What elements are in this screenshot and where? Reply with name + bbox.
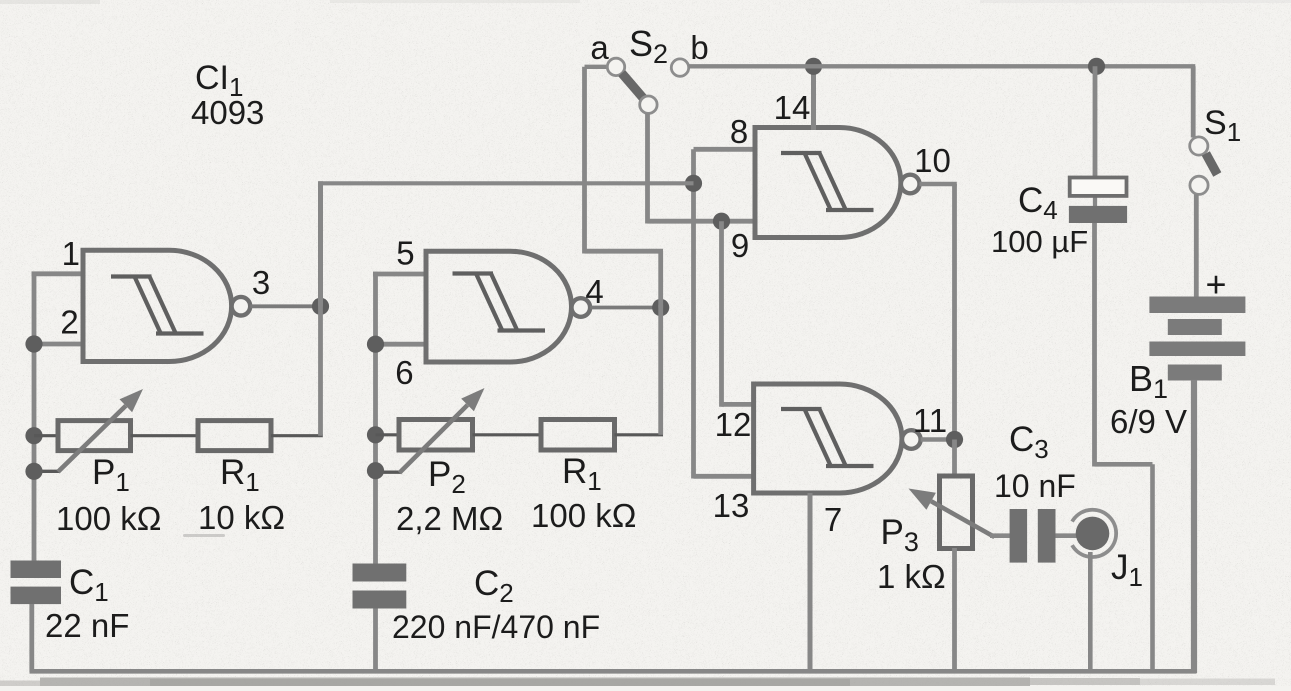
switch S1 top contact <box>1190 137 1208 155</box>
svg-text:10 kΩ: 10 kΩ <box>198 499 285 536</box>
wire C3 to J1 <box>1056 533 1079 538</box>
wire C4 top lead <box>1093 66 1098 177</box>
node pin2 junction <box>25 335 42 352</box>
label C1 <box>69 563 109 607</box>
wire pin9 input <box>648 219 756 224</box>
node P2 wiper junction <box>367 462 384 479</box>
schmitt symbol U1c <box>781 153 874 211</box>
capacitor C3 <box>1010 509 1056 563</box>
NAND gate U1c <box>755 128 920 238</box>
capacitor C4 negative plate <box>1069 206 1127 223</box>
battery B1 plate 1 <box>1149 297 1245 314</box>
wire P2-R1b <box>473 433 542 436</box>
node pin8 junction <box>685 175 702 192</box>
wire pin7 ground <box>808 493 813 672</box>
wire S2a horizontal <box>585 249 664 254</box>
wire pin8 vertical <box>691 149 696 478</box>
label P3 <box>881 513 919 557</box>
wire P1 left lead <box>34 434 58 437</box>
wire wiper to C3 <box>990 533 1011 538</box>
svg-text:4: 4 <box>585 273 603 310</box>
label 100 k&#937; (R1b) <box>531 497 636 534</box>
label battery plus <box>1205 264 1226 305</box>
wire top rail <box>689 64 1196 68</box>
node pin9 junction <box>713 213 730 230</box>
wire S2a to pin4 junction <box>658 251 663 307</box>
wire pin11 to P3 <box>952 440 957 477</box>
wire pin3 output <box>250 304 322 308</box>
schmitt symbol U1d <box>781 409 874 467</box>
wire ground rail <box>30 669 1197 674</box>
wire C4 bottom lead <box>1092 223 1097 467</box>
svg-text:5: 5 <box>396 235 414 272</box>
wire J1 to ground <box>1088 552 1093 672</box>
label P2 <box>428 455 466 499</box>
svg-text:4093: 4093 <box>191 94 264 131</box>
wire pin1 input <box>32 271 84 276</box>
schmitt symbol U1a <box>111 277 204 335</box>
pin label 4 <box>585 273 603 310</box>
capacitor C1 <box>11 561 62 605</box>
label C4 <box>1018 181 1058 225</box>
svg-text:10: 10 <box>914 142 951 179</box>
node C4 junction <box>1088 58 1105 75</box>
jack J1 pin <box>1076 517 1110 551</box>
svg-text:8: 8 <box>730 113 748 150</box>
svg-text:a: a <box>590 29 609 66</box>
node pin3 junction <box>312 298 329 315</box>
label 1 k&#937; <box>877 558 946 595</box>
pin label 7 <box>824 501 842 538</box>
pin label 8 <box>730 113 748 150</box>
pin label 11 <box>913 402 947 439</box>
wire C4 jog <box>1095 462 1153 467</box>
svg-text:100 kΩ: 100 kΩ <box>56 500 161 537</box>
wire pin8 input <box>694 147 756 152</box>
label P1 <box>92 453 130 497</box>
switch S2 terminal b <box>671 59 688 76</box>
switch S2 terminal a <box>607 58 624 75</box>
resistor R1 <box>198 421 271 451</box>
svg-text:6/9 V: 6/9 V <box>1110 403 1187 440</box>
label 10 k&#937; <box>198 499 285 536</box>
svg-text:11: 11 <box>913 402 947 439</box>
svg-text:10 nF: 10 nF <box>994 468 1076 504</box>
svg-text:3: 3 <box>252 264 270 301</box>
wire S2a drop <box>582 67 587 254</box>
label 220 nF/470 nF <box>392 609 600 645</box>
wire left rail osc2 <box>373 272 378 565</box>
pin label 6 <box>395 354 413 391</box>
svg-text:6: 6 <box>395 354 413 391</box>
pin label 9 <box>731 227 749 264</box>
pin label 5 <box>396 235 414 272</box>
NAND gate U1a <box>83 250 250 361</box>
svg-text:100 kΩ: 100 kΩ <box>531 497 636 534</box>
wire P1-R1 <box>131 434 199 437</box>
battery B1 plate 4 <box>1168 365 1222 381</box>
capacitor C4 positive plate <box>1070 178 1127 196</box>
potentiometer P3 <box>940 476 973 549</box>
label S1 <box>1204 104 1241 147</box>
svg-text:220 nF/470 nF: 220 nF/470 nF <box>392 609 600 645</box>
wire C2 to ground <box>373 609 378 673</box>
switch S2 blade <box>622 73 644 98</box>
node pin14 junction <box>805 58 822 75</box>
switch S2 pole <box>640 96 657 113</box>
label 100 k&#937; (P1) <box>56 500 161 537</box>
label C3 <box>1009 420 1049 464</box>
svg-text:14: 14 <box>774 89 811 126</box>
wire pin12 input <box>722 402 754 407</box>
svg-text:13: 13 <box>713 487 750 524</box>
P3 wiper arrow <box>909 489 995 538</box>
label 10 nF <box>994 468 1076 504</box>
node pin6 junction <box>367 336 384 353</box>
svg-text:7: 7 <box>824 501 842 538</box>
NAND gate U1d <box>754 384 921 493</box>
wire pin13 input <box>694 474 754 479</box>
wire pin11 output <box>921 437 955 441</box>
wire battery to ground <box>1191 380 1197 673</box>
node P1 left junction <box>25 427 42 444</box>
wire feedback riser osc1 <box>318 181 323 306</box>
wire R1b riser to pin4 <box>658 305 663 435</box>
switch S1 blade <box>1206 154 1218 175</box>
svg-text:1 kΩ: 1 kΩ <box>877 558 946 595</box>
label CI1 <box>195 59 243 102</box>
label b <box>690 29 708 66</box>
wire C4 gap stub <box>1093 198 1097 208</box>
wire C4 to ground <box>1150 464 1155 672</box>
wire P2 left lead <box>376 433 400 436</box>
wire S1 to battery <box>1194 194 1199 299</box>
capacitor C2 <box>353 564 407 609</box>
schmitt symbol U1b <box>453 274 546 332</box>
svg-text:2: 2 <box>60 304 78 341</box>
pin label 14 <box>774 89 811 126</box>
wire P3 to ground <box>952 548 957 672</box>
potentiometer P1 <box>58 421 131 451</box>
label a <box>590 29 609 66</box>
NAND gate U1b <box>426 251 590 362</box>
wire pin2 input <box>34 342 83 347</box>
wire C1 to ground <box>29 604 34 672</box>
svg-text:9: 9 <box>731 227 749 264</box>
resistor R1 (second) <box>541 420 615 451</box>
jack J1 sleeve <box>1072 510 1116 557</box>
P1 wiper arrow <box>34 389 143 472</box>
label R1 (second) <box>562 452 602 496</box>
battery B1 plate 2 <box>1168 319 1222 335</box>
node P2 left junction <box>367 426 384 443</box>
wire pin12 vertical <box>719 221 724 407</box>
wire R1 riser to pin3 <box>318 304 323 436</box>
label B1 <box>1129 358 1168 404</box>
svg-text:12: 12 <box>715 406 752 443</box>
battery B1 plate 3 <box>1149 342 1245 357</box>
label 6/9 V <box>1110 403 1187 440</box>
svg-text:2,2 MΩ: 2,2 MΩ <box>396 500 503 537</box>
label 100 uF <box>991 224 1088 259</box>
P2 wiper arrow <box>376 388 485 473</box>
wire R1b right lead <box>615 433 664 436</box>
label S2 <box>629 23 668 69</box>
pin label 12 <box>715 406 752 443</box>
label J1 <box>1111 548 1143 592</box>
wire pin5 input <box>373 272 426 277</box>
wire S2 pole drop <box>645 113 650 223</box>
potentiometer P2 <box>399 420 473 451</box>
wire pin10 output <box>920 182 957 186</box>
label 4093 <box>191 94 264 131</box>
pin label 10 <box>914 142 951 179</box>
svg-text:100 µF: 100 µF <box>991 224 1088 259</box>
wire left rail osc1 upper <box>32 272 37 564</box>
switch S1 bottom contact <box>1190 176 1208 194</box>
wire top rail corner drop <box>1191 66 1196 137</box>
svg-text:1: 1 <box>62 235 80 272</box>
svg-text:22 nF: 22 nF <box>45 607 129 644</box>
node pin11 junction <box>946 431 963 448</box>
pin label 3 <box>252 264 270 301</box>
label 22 nF <box>45 607 129 644</box>
wire a-terminal to left corner <box>585 65 610 69</box>
wire pin4 output <box>590 306 663 310</box>
label R1 <box>220 453 260 497</box>
pin label 13 <box>713 487 750 524</box>
svg-text:b: b <box>690 29 708 66</box>
node P1 wiper junction <box>25 463 42 480</box>
label 2,2 M&#937; <box>396 500 503 537</box>
pin label 1 <box>62 235 80 272</box>
wire pin6 input <box>376 342 427 347</box>
wire pin14 supply <box>811 66 816 130</box>
wire R1 right lead <box>271 434 323 437</box>
node pin4 junction <box>652 299 669 316</box>
pin label 2 <box>60 304 78 341</box>
label C2 <box>474 564 514 608</box>
wire pin10 drop <box>952 184 957 442</box>
wire oscillators to pin8 <box>319 181 694 185</box>
